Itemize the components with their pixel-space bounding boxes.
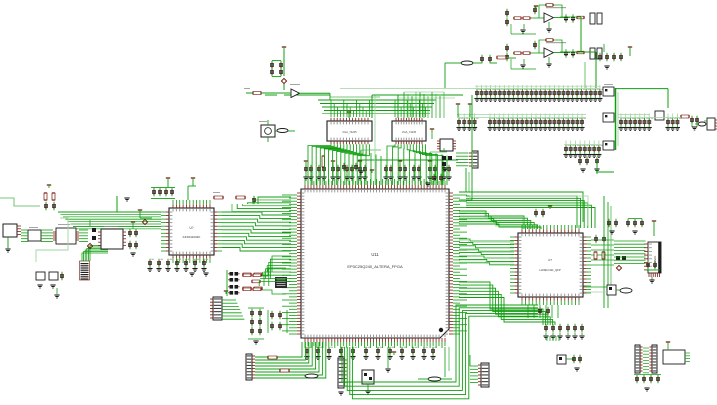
wires resistor network to chip bbox=[82, 246, 108, 262]
wires bottom right connector bbox=[470, 355, 478, 383]
capacitor row below left chip bbox=[147, 259, 208, 272]
capacitor bank above left chip bbox=[124, 178, 196, 201]
audio routing verticals bbox=[340, 89, 476, 185]
wire bundle U11 to left chip bbox=[222, 212, 291, 251]
wire stubs right chip bbox=[510, 225, 591, 305]
wire bundle U11 bottom to right area bbox=[342, 305, 538, 399]
decoupling capacitor row 3 (PLL) bbox=[563, 141, 614, 158]
crystal oscillator X? bbox=[259, 120, 295, 142]
JTAG header JP? bbox=[469, 151, 478, 168]
regulator U? row1 bbox=[603, 84, 614, 96]
caps below config chip bbox=[425, 174, 443, 186]
op-amp U? main FPGA chip U11 bbox=[297, 185, 453, 342]
USB connector J? bbox=[3, 224, 21, 252]
capacitor bank C? near oscillator bbox=[270, 47, 286, 77]
pwr bottom right bbox=[666, 342, 670, 350]
series resistors bottom-left bbox=[267, 356, 318, 378]
wire bundle 74245 to U11 bbox=[308, 144, 447, 185]
SD card connector J? bbox=[644, 242, 661, 283]
wire stubs left chip bbox=[161, 200, 222, 263]
power filter left bbox=[138, 210, 152, 225]
caps above SD right bbox=[646, 261, 660, 270]
USB pullups bbox=[44, 185, 56, 210]
config device U? (EPCS) bbox=[430, 129, 456, 151]
wires to JTAG header bbox=[444, 148, 469, 166]
connector JP? below U11 bbox=[338, 358, 347, 395]
vertical wires SD area bbox=[604, 196, 611, 308]
USB PHY chip U? bbox=[53, 224, 79, 244]
wires below right chip bbox=[528, 305, 558, 318]
wires to SD connector bbox=[614, 241, 646, 263]
decoupling capacitor row 1 (VCC) bbox=[474, 85, 603, 102]
wire bundle connector to U11 bottom bbox=[255, 342, 326, 378]
transistor array left bbox=[227, 270, 240, 296]
inductor L? bottom bbox=[385, 347, 452, 381]
wire USB to bus bbox=[0, 196, 117, 212]
svg-text:U?: U? bbox=[189, 226, 193, 230]
ground symbols below left chip bbox=[189, 273, 208, 276]
stub grounds right bbox=[547, 336, 559, 341]
resistors above left chip bbox=[213, 192, 256, 204]
caps oscillator bbox=[128, 222, 138, 256]
wire stubs U11 bottom pins bbox=[305, 342, 445, 348]
USB data wires bbox=[21, 230, 88, 242]
resistor R? clock bbox=[244, 88, 284, 95]
power marks near buffers bbox=[347, 112, 374, 174]
wire bundle U11 to right chip top bbox=[459, 211, 541, 229]
vertical feed line regulators bbox=[597, 88, 618, 174]
left chip U? SDRAM bbox=[166, 205, 218, 259]
right chip U? ethernet bbox=[514, 229, 586, 300]
power symbols row2 bbox=[456, 104, 472, 117]
decoupling capacitor row above U11 bbox=[303, 155, 458, 180]
buffer chip U? 74HC245 A bbox=[327, 118, 372, 144]
wire bundle lower loop to right bbox=[459, 282, 555, 325]
connector JP? bottom-left bbox=[246, 354, 255, 380]
striped connector JP? bbox=[275, 277, 287, 288]
capacitor+ground row below right chip bbox=[543, 324, 584, 339]
common-mode choke FB? bbox=[28, 227, 41, 241]
wire bus to USB section bbox=[58, 212, 161, 229]
dual header bottom right bbox=[635, 345, 657, 373]
wire right chip top loop bbox=[459, 192, 588, 226]
crystal Y? right section bbox=[559, 283, 632, 295]
wire bus above buffers bbox=[318, 97, 436, 117]
transistors config bbox=[442, 156, 452, 171]
svg-text:EP3C25Q240_ALTERA_FPGA: EP3C25Q240_ALTERA_FPGA bbox=[347, 264, 403, 269]
capacitor column below-left of U11 bbox=[248, 308, 287, 344]
oscillator module U? bbox=[98, 226, 126, 249]
buffer chip U? 74HC245 B bbox=[392, 118, 426, 144]
wires from mid-left header bbox=[222, 300, 244, 319]
usb ground bbox=[54, 288, 59, 298]
wire bundle U11 to right chip bbox=[459, 239, 514, 265]
wire U11 right-top up bbox=[459, 95, 472, 200]
wire audio feed down bbox=[444, 63, 446, 88]
caps above SD connector bbox=[626, 219, 656, 236]
wire bundle U11 to resistor rows bbox=[259, 256, 291, 286]
crystal X? USB bbox=[36, 272, 64, 288]
interconnect wires op-amp area bbox=[560, 17, 604, 88]
transistor Q? below U11 bbox=[362, 370, 374, 394]
op-amp circuit A (audio in) bbox=[505, 4, 602, 34]
svg-text:U11: U11 bbox=[371, 252, 379, 257]
decoupling capacitor row 2 (VCCIO) bbox=[456, 114, 586, 131]
op-amp circuit B (audio out) bbox=[505, 39, 602, 69]
wire stubs U11 top pins bbox=[305, 179, 445, 185]
svg-text:VGA_74245: VGA_74245 bbox=[402, 130, 417, 134]
regulator U? row2 bbox=[603, 113, 614, 122]
svg-text:K4S641632K: K4S641632K bbox=[183, 235, 201, 239]
caps pair above right chip bbox=[578, 157, 618, 234]
capacitor+ground row below U11 bbox=[304, 347, 437, 360]
ferrite bead FB? bbox=[281, 78, 286, 90]
svg-text:U?: U? bbox=[548, 258, 552, 262]
resistors beside transistor array bbox=[242, 274, 261, 291]
connector J? bottom right bbox=[478, 363, 489, 387]
decoupling capacitor row 2 right part bbox=[618, 111, 699, 131]
clock buffer gate bbox=[284, 84, 330, 100]
component bottom right corner bbox=[643, 348, 690, 373]
svg-text:VGA_74245: VGA_74245 bbox=[342, 130, 357, 134]
termination network right of chip bbox=[591, 235, 626, 271]
wire bundle U11 to right chip top-right bbox=[466, 196, 595, 228]
reset circuit bottom bbox=[557, 355, 582, 371]
wire usb loop bbox=[36, 218, 68, 262]
header JP? mid-left bbox=[210, 291, 228, 320]
wires to striped connector bbox=[262, 268, 286, 294]
caps between buffer and U11 bbox=[342, 163, 358, 171]
svg-text:LAN91C111_QFP: LAN91C111_QFP bbox=[539, 268, 560, 272]
cap bank right of op-amp B bbox=[598, 47, 632, 69]
wire from oscillator to buffers bbox=[265, 94, 330, 96]
transistors USB section bbox=[87, 220, 96, 249]
wire stubs U11 right pins bbox=[453, 195, 467, 334]
audio jack J? input network bbox=[445, 55, 516, 65]
caps below dual header bbox=[634, 375, 661, 391]
wire reg1 to reg row bbox=[616, 89, 668, 108]
pull-up resistor rows left of U11 bbox=[242, 273, 262, 290]
caps above right chip bbox=[534, 206, 552, 217]
wire stubs U11 left pins bbox=[282, 195, 297, 334]
wire bundle U11 upper-left bbox=[232, 197, 291, 212]
power connector far right bbox=[695, 118, 717, 130]
resistor network RN? bbox=[80, 261, 90, 280]
